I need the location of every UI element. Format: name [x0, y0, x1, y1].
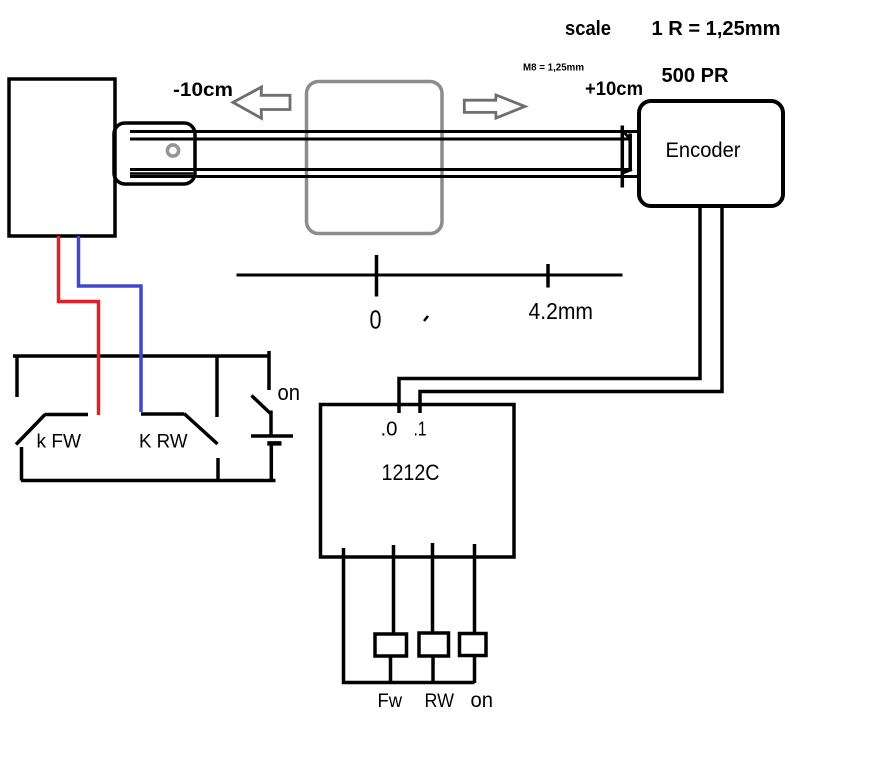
wire bottom rail left riser: [20, 447, 24, 481]
svg-text:K RW: K RW: [139, 431, 188, 453]
stray pen tick: [424, 316, 428, 321]
switch S1 k FW contact arm: [45, 413, 89, 417]
ruler baseline: [237, 274, 623, 277]
wire encoder pin A down-left to 1212C pin .0: [399, 206, 700, 413]
svg-text:1 R = 1,25mm: 1 R = 1,25mm: [652, 18, 781, 40]
battery BT1 negative plate: [267, 441, 281, 446]
rail end bracket outer tick: [621, 126, 625, 188]
wire blue motor lead: [79, 236, 142, 412]
encoder U1 (rounded box): [639, 101, 783, 206]
svg-text:k FW: k FW: [37, 431, 82, 453]
svg-text:4.2mm: 4.2mm: [529, 298, 594, 324]
wire output pin 1 (leftmost, down then right along bottom bus): [344, 548, 475, 683]
wire output pin 4 to terminal on: [473, 544, 477, 634]
switch S3 on blade: [252, 396, 271, 414]
ruler tick 0: [375, 255, 379, 297]
wire output pin 2 to terminal Fw: [392, 545, 396, 635]
svg-text:RW: RW: [425, 691, 455, 712]
arrow left (grey outline): [233, 87, 290, 118]
wire top rail right drop to switch on: [267, 351, 271, 390]
terminal block RW: [419, 633, 449, 656]
battery BT1 positive plate: [251, 434, 293, 438]
wire below terminal Fw: [389, 656, 393, 683]
rail end bracket inner tick: [628, 134, 632, 172]
svg-text:0: 0: [370, 307, 382, 335]
wire top rail left drop: [15, 356, 19, 397]
svg-text:.0: .0: [381, 419, 398, 441]
wire rail bottom line 2: [130, 175, 638, 178]
svg-text:Encoder: Encoder: [666, 139, 741, 162]
wire relay circuit bottom rail: [21, 479, 276, 483]
svg-text:Fw: Fw: [378, 691, 403, 712]
switch S2 K RW blade: [184, 414, 218, 445]
svg-text:500 PR: 500 PR: [662, 65, 730, 87]
ruler tick 4.2mm: [546, 264, 550, 288]
wire output pin 3 to terminal RW: [431, 543, 435, 634]
svg-text:+10cm: +10cm: [585, 79, 643, 100]
wire red motor lead: [59, 236, 99, 415]
svg-text:on: on: [278, 380, 301, 405]
coupling (rounded block on motor shaft): [114, 123, 195, 184]
arrow right (grey outline): [464, 95, 525, 118]
wire rail top line 2: [130, 138, 629, 141]
wire below terminal RW: [431, 656, 435, 683]
switch S1 k FW blade: [16, 415, 45, 445]
terminal block Fw: [375, 634, 407, 656]
switch S2 K RW contact arm: [141, 412, 184, 416]
svg-text:.1: .1: [414, 419, 427, 441]
wire below terminal on: [473, 655, 477, 683]
wire rail bottom mid stub inside coupling: [130, 172, 193, 175]
wire top rail middle drop: [215, 356, 219, 417]
carriage (grey rounded rect on rail): [307, 82, 443, 234]
svg-text:on: on: [471, 689, 494, 712]
svg-text:1212C: 1212C: [382, 460, 440, 485]
svg-text:M8 = 1,25mm: M8 = 1,25mm: [523, 63, 584, 74]
controller 1212C box: [321, 405, 515, 558]
wire bottom rail middle riser: [216, 458, 220, 481]
wire encoder pin B down-left to 1212C pin .1: [420, 206, 722, 413]
svg-text:scale: scale: [565, 18, 611, 40]
wire rail top line 1: [130, 130, 638, 133]
wire rail bottom line 1: [130, 168, 632, 171]
bracket top diagonal tick: [625, 133, 631, 139]
svg-text:-10cm: -10cm: [173, 80, 233, 101]
motor M1 (box top-left): [9, 79, 115, 236]
wire relay circuit top rail: [13, 354, 269, 358]
wire blade end to battery: [269, 411, 273, 436]
grey set-screw hole in coupling: [167, 145, 178, 156]
terminal block on: [460, 634, 487, 656]
wire battery to bottom rail: [270, 444, 274, 481]
bracket bottom diagonal tick: [623, 170, 633, 174]
